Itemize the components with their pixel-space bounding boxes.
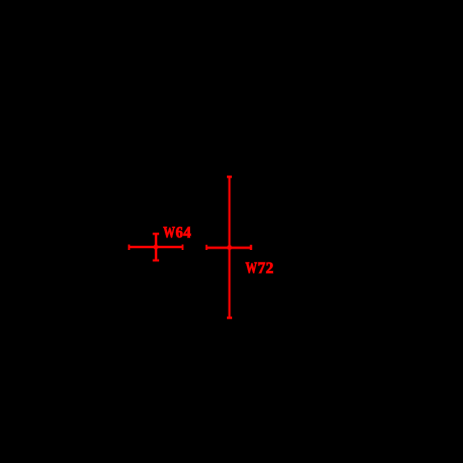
svg-text:W: W — [163, 225, 175, 242]
svg-text:4: 4 — [183, 225, 191, 242]
wire name label W72 — [246, 260, 274, 277]
wire W64 vertical segment — [154, 234, 158, 261]
wire name label W64 — [163, 225, 191, 242]
svg-text:W: W — [246, 260, 258, 277]
svg-text:2: 2 — [266, 260, 274, 277]
wire W72 vertical segment — [228, 177, 231, 318]
wire W64 right endpoint cap — [181, 245, 184, 251]
wire W64 left endpoint cap — [127, 245, 130, 251]
junction dot at wire W64 crossing — [153, 244, 159, 250]
svg-text:6: 6 — [176, 225, 183, 242]
wire W64 horizontal segment — [129, 245, 183, 249]
svg-text:7: 7 — [258, 260, 266, 277]
wire W72 bottom endpoint cap — [227, 316, 232, 320]
junction dot at wire W72 crossing — [227, 245, 233, 251]
wire W72 right endpoint cap — [249, 245, 252, 250]
wire W64 top endpoint cap — [153, 232, 159, 235]
wire W64 bottom endpoint cap — [153, 259, 159, 262]
wire W72 left endpoint cap — [205, 245, 208, 250]
wire W72 horizontal segment — [206, 246, 251, 250]
wire W72 top endpoint cap — [227, 175, 232, 179]
